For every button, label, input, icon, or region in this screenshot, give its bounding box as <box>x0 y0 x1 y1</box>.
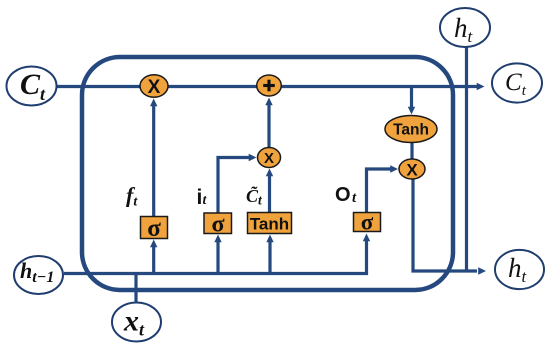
svg-text:t: t <box>352 190 357 206</box>
wire: X3 output down and right to h_t node <box>413 178 477 271</box>
wire: C-line branch down to Tanh ellipse <box>410 87 413 108</box>
arrowhead: input bus into o-gate sigma <box>363 234 370 242</box>
svg-text:t: t <box>203 193 208 208</box>
wire: cell-state line C (left ellipse to right arrow) <box>56 85 478 88</box>
operator plus (cell-state add) <box>257 75 282 96</box>
node h_t (bottom right output) <box>495 250 544 289</box>
wire: Tanh ellipse to X3 <box>410 142 413 161</box>
svg-text:i: i <box>197 186 203 209</box>
svg-text:C̃t: C̃t <box>246 186 263 208</box>
arrowhead: o-gate into X3 <box>390 165 398 172</box>
wire: i-gate riser from bus to sigma <box>216 240 219 274</box>
svg-text:σ: σ <box>147 215 161 242</box>
svg-text:X: X <box>148 77 161 98</box>
arrowhead: into plus <box>265 98 272 106</box>
operator X1 (forget multiply) <box>140 75 168 97</box>
LSTM cell boundary <box>82 57 453 290</box>
node C_t (right output cell state) <box>492 63 542 102</box>
operator X3 (output multiply) <box>399 159 425 179</box>
svg-text:σ: σ <box>361 210 374 235</box>
arrowhead: into candidate Tanh box <box>266 235 273 243</box>
node x_t (bottom input) <box>112 303 161 342</box>
operator Tanh ellipse (cell-state squash) <box>385 116 437 143</box>
svg-text:Tanh: Tanh <box>250 215 289 234</box>
wire: f-gate sigma to multiply X1 <box>152 104 155 216</box>
wire: candidate riser from bus to Tanh box <box>268 240 271 274</box>
wire: i-gate sigma elbow to multiply X2 <box>218 158 250 214</box>
wire: h_t branch up to top h_t node <box>465 47 468 271</box>
wire: candidate Tanh box to multiply X2 <box>268 174 271 213</box>
svg-text:ft: ft <box>126 183 138 210</box>
wire: f-gate riser from bus to sigma <box>152 245 155 274</box>
svg-text:X: X <box>264 150 274 167</box>
arrowhead: C-state into right C_t node <box>477 83 485 90</box>
wire: x_t input riser <box>134 272 137 303</box>
gate box sigma (output gate) <box>354 213 381 232</box>
node h_t (top right output) <box>440 8 490 47</box>
wire: X2 to plus <box>267 103 270 148</box>
arrowhead: into i-gate sigma <box>214 235 221 243</box>
svg-text:σ: σ <box>211 212 224 238</box>
gate box sigma (input gate) <box>204 213 232 234</box>
node h_(t-1) (bottom left input) <box>14 256 63 294</box>
arrowhead: into f-gate sigma <box>150 240 157 248</box>
gate box sigma (forget gate) <box>141 217 168 239</box>
wire: o-gate sigma elbow to multiply X3 <box>367 169 393 213</box>
svg-text:X: X <box>406 161 418 180</box>
arrowhead: i-gate into X2 <box>249 154 257 161</box>
svg-text:Tanh: Tanh <box>393 122 429 139</box>
wire: h(t-1)/x(t) input bus at bottom <box>64 239 367 274</box>
operator X2 (input multiply) <box>258 148 281 168</box>
arrowhead: f-gate into X1 <box>150 99 157 107</box>
arrowhead: output into bottom-right h_t node <box>478 267 486 274</box>
node C_t (left input cell state) <box>7 67 57 106</box>
svg-text:O: O <box>335 184 351 206</box>
arrowhead: candidate into X2 <box>266 169 273 177</box>
arrowhead: into Tanh ellipse <box>408 107 415 115</box>
gate box Tanh (candidate) <box>248 213 292 234</box>
